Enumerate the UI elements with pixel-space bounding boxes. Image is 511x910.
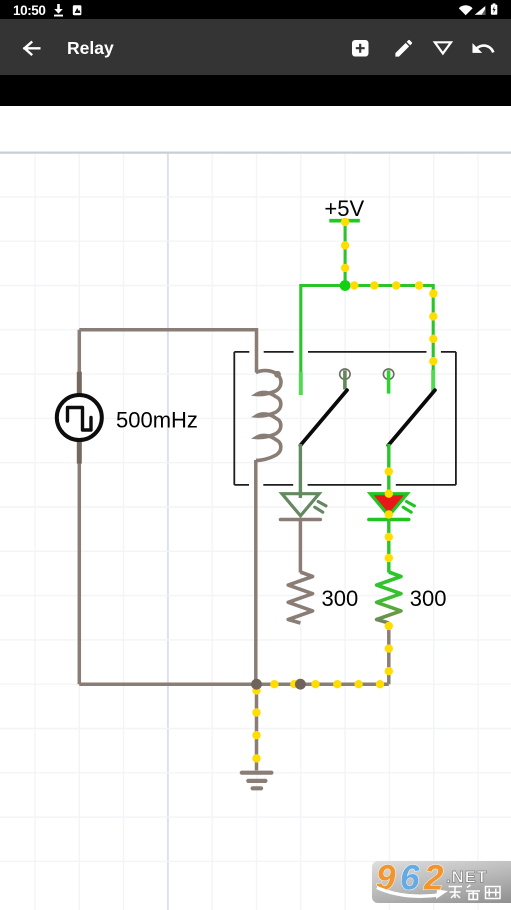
LED D2 rays [403,502,414,513]
edit (pencil) icon [395,40,412,57]
switch S2 arm [388,390,435,445]
switch S1 contact stem [343,370,347,389]
source V1 square wave glyph [68,408,92,431]
LED D1 rays [315,502,326,513]
relay box K1 [234,352,456,485]
watermark badge [372,861,511,903]
wire: D2 cathode to resistor R2 [387,520,390,573]
wire: +5V down to junction [344,221,347,286]
ground symbol [242,773,272,789]
switch S1 arm [300,390,347,445]
wire: source top loop [79,330,256,373]
wifi icon [459,5,473,15]
LED D2 cathode bar [369,518,409,522]
inductor coil L1 [256,371,281,461]
current dot under R1 junction [290,680,298,688]
wire: R2 down and left to junction [387,623,391,684]
svg-text:+5V: +5V [324,196,364,221]
svg-text:300: 300 [410,586,447,611]
wire: coil bottom to rail [254,460,258,684]
962 logo text [376,859,444,898]
wire: D1 cathode to resistor R1 [299,520,303,573]
back arrow icon [25,42,40,54]
wire: S1 pole down to LED D1 [299,444,302,498]
coil top dot [274,371,281,378]
resistor R1 zigzag [288,572,312,623]
switch S1 throw contact circle [340,369,350,379]
LED D1 cathode bar [281,518,321,522]
wire: S2 pole down to LED D2 [387,444,390,498]
black strip below app bar [0,75,511,106]
undo icon [472,43,494,53]
LED D2 triangle [370,494,407,516]
current flow dots [252,218,437,763]
status bar [0,0,511,19]
svg-text:6: 6 [400,861,420,898]
current dot under ground junction [252,686,260,694]
junction node dot (+5V) [340,280,351,291]
wire: bottom rail [79,682,389,686]
app bar [0,19,511,75]
junction node dot (R1/rail) [295,679,306,690]
wire: source left vertical [78,330,82,684]
screenshot icon [73,5,82,15]
svg-text:.NET: .NET [446,869,488,887]
swoosh arrow [377,888,440,897]
wire: junction right branch [345,286,433,373]
switch S2 right contact terminal (light green tip) [431,370,435,393]
+5V power bar [329,219,360,223]
signal icon [475,6,486,15]
filter (nabla) icon [435,42,451,53]
wire: junction left branch [301,286,345,375]
svg-text:300: 300 [322,586,359,611]
add icon [352,40,369,57]
battery icon [491,3,497,14]
LED D1 triangle [282,494,319,516]
switch S1 top contact terminal (light green tip) [299,372,303,395]
source V1 terminal stubs [77,372,82,464]
switch S2 contact stem [387,370,391,393]
svg-text:500mHz: 500mHz [116,408,198,433]
fake hanzi 乐游网 [449,885,501,900]
wire: ground stub [255,684,259,770]
junction node dot (coil/ground) [251,679,262,690]
switch S2 throw contact circle [383,369,393,379]
download icon [54,4,63,17]
source V1 circle [57,395,102,440]
